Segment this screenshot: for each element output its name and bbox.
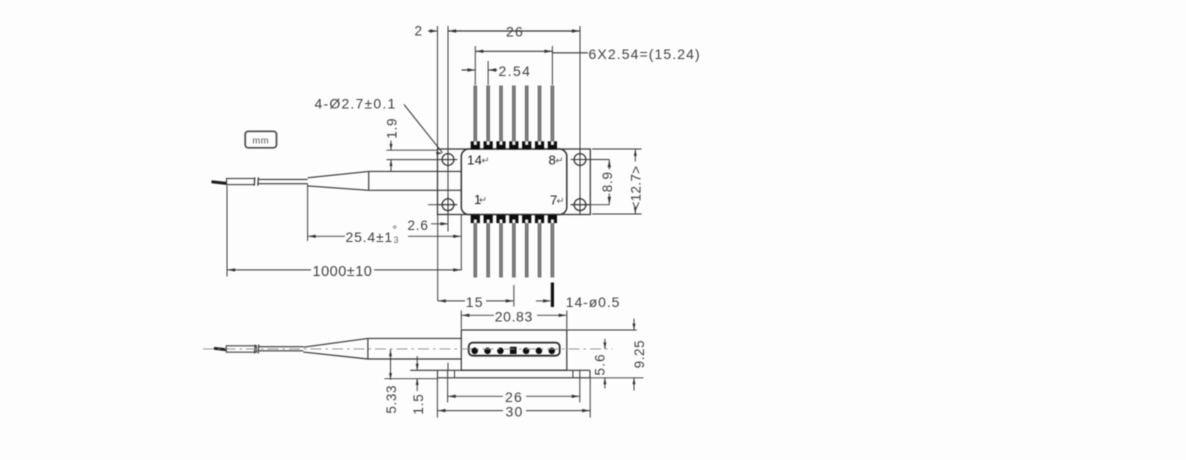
mounting hole bottom-left bbox=[439, 196, 457, 214]
pin 11 lead (top row, top view) bbox=[509, 86, 518, 150]
pin 8 lead (top row, top view) bbox=[548, 86, 557, 150]
svg-text:3: 3 bbox=[394, 235, 399, 245]
svg-text:14: 14 bbox=[467, 153, 482, 168]
dimension 2.54 (pin pitch) bbox=[462, 63, 532, 79]
feedthrough slot (side view) bbox=[469, 343, 560, 356]
mounting slot notch right (side view) bbox=[573, 370, 580, 378]
dimension 5.6 bbox=[592, 339, 607, 389]
dimension 1.5 bbox=[411, 356, 426, 415]
svg-text:↵: ↵ bbox=[482, 156, 490, 167]
dimension 8.9 (hole vertical spacing) bbox=[600, 160, 615, 205]
svg-text:1.5: 1.5 bbox=[411, 393, 426, 414]
svg-text:2.54: 2.54 bbox=[499, 63, 532, 79]
butterfly package body (top view) bbox=[461, 149, 567, 215]
fiber ferrule (side view) bbox=[226, 346, 256, 352]
extension line pin 14 bbox=[474, 46, 476, 85]
svg-text:5.33: 5.33 bbox=[384, 385, 399, 414]
pin 7 bold lead segment for 14-Ø0.5 callout bbox=[551, 283, 554, 308]
pin 5 end dot (side view) bbox=[523, 348, 530, 355]
pin 9 lead (top row, top view) bbox=[535, 86, 544, 150]
svg-text:25.4±1: 25.4±1 bbox=[346, 229, 394, 245]
dimension 26 (bottom) bbox=[448, 389, 580, 405]
pin 5 lead (bottom row, top view) bbox=[522, 215, 531, 278]
mounting hole top-left bbox=[439, 150, 457, 168]
extension line flange left edge bbox=[437, 26, 439, 149]
pin 3 lead (bottom row, top view) bbox=[496, 215, 505, 278]
svg-text:6X2.54=(15.24): 6X2.54=(15.24) bbox=[589, 46, 701, 62]
pin 1 lead (bottom row, top view) bbox=[471, 215, 480, 278]
dimension 1000±10 extension line bbox=[226, 186, 228, 277]
plate step tick (side view) bbox=[447, 363, 449, 371]
leader 4-Ø2.7±0.1 (mounting holes) bbox=[315, 96, 443, 155]
pin 2 end dot (side view) bbox=[484, 348, 491, 355]
package body (side view) bbox=[461, 330, 567, 370]
mounting hole top-right bbox=[571, 150, 589, 168]
fiber boot taper (top view) bbox=[308, 171, 369, 190]
pin 6 lead (bottom row, top view) bbox=[535, 215, 544, 278]
left hole lower cross stub bbox=[428, 204, 457, 206]
dimension 9.25 bbox=[632, 319, 647, 391]
dimension 20.83 bbox=[461, 308, 567, 324]
svg-text:<12.7>: <12.7> bbox=[629, 166, 644, 210]
svg-text:4-Ø2.7±0.1: 4-Ø2.7±0.1 bbox=[315, 96, 397, 112]
dimension 20.83 extension lines bbox=[461, 311, 567, 330]
dimension 15 extension elbow bbox=[437, 215, 439, 301]
pin 12 lead (top row, top view) bbox=[496, 86, 505, 150]
svg-text:14-ø0.5: 14-ø0.5 bbox=[566, 294, 621, 310]
dimension 2.6 bbox=[408, 218, 449, 233]
dimension 8.9 tails bbox=[571, 160, 610, 205]
fiber boot taper (side view) bbox=[303, 338, 368, 359]
svg-text:↵: ↵ bbox=[557, 196, 565, 207]
dimension 30 bbox=[437, 404, 590, 420]
svg-text:↵: ↵ bbox=[556, 156, 564, 167]
dimension 26 (hole spacing, top) bbox=[448, 24, 580, 40]
dimension 15 tick at pin 4 bbox=[513, 285, 515, 307]
ferrule break marks (side view) bbox=[255, 345, 259, 354]
dimension 1.9 stub lines bbox=[387, 150, 458, 159]
pin 4 lead (bottom row, top view) bbox=[509, 215, 518, 278]
callout 14-Ø0.5 (pin diameter) bbox=[536, 294, 620, 310]
pin label 7 bbox=[550, 193, 565, 208]
svg-text:↵: ↵ bbox=[479, 195, 487, 206]
extension line right hole center bbox=[579, 26, 581, 215]
dimension 1.9 bbox=[385, 118, 400, 172]
fiber ferrule (top view) bbox=[227, 179, 255, 185]
dimension 9.25 bottom reference line bbox=[590, 377, 644, 379]
svg-text:20.83: 20.83 bbox=[495, 308, 533, 324]
pin label 8 bbox=[549, 153, 564, 168]
baseplate flange (side view) bbox=[410, 370, 590, 378]
extension line package left edge below bbox=[460, 215, 462, 271]
bare fiber tip (side view) bbox=[214, 348, 226, 349]
svg-text:30: 30 bbox=[506, 404, 524, 420]
dimension 1000±10 bbox=[227, 264, 461, 280]
fiber tube (top view) bbox=[258, 179, 308, 183]
pin 3 end dot (side view) bbox=[497, 348, 504, 355]
extension line pin 8 bbox=[551, 46, 553, 85]
pin 14 lead (top row, top view) bbox=[471, 86, 480, 150]
svg-text:9.25: 9.25 bbox=[632, 340, 647, 369]
package mounting flange (top view) bbox=[438, 149, 591, 215]
pin 10 lead (top row, top view) bbox=[522, 86, 531, 150]
ferrule break marks (top view) bbox=[254, 177, 258, 185]
dimension 26 extension lines (bottom) bbox=[448, 378, 580, 402]
fiber boot snout (side view) bbox=[368, 338, 461, 359]
dimension 6X2.54=(15.24) bbox=[475, 46, 701, 62]
pin label 1 bbox=[474, 192, 487, 207]
centerline (side view) bbox=[203, 348, 613, 350]
dimension 30 extension lines bbox=[437, 378, 590, 417]
pin 7 end dot (side view) bbox=[549, 348, 556, 355]
units box mm bbox=[245, 131, 276, 148]
pin 2 lead (bottom row, top view) bbox=[484, 215, 493, 278]
bare fiber tip (top view) bbox=[212, 182, 227, 184]
svg-text:2: 2 bbox=[415, 24, 423, 39]
pin label 14 bbox=[467, 153, 490, 168]
pin 13 lead (top row, top view) bbox=[484, 86, 493, 150]
mounting slot notch left (side view) bbox=[448, 370, 455, 378]
dimension 5.33 bbox=[384, 349, 399, 413]
dimension 15 bbox=[438, 294, 514, 310]
fiber boot snout (top view) bbox=[369, 171, 462, 190]
dimension 25.4±1 bbox=[308, 225, 462, 246]
pin 1 end dot (side view) bbox=[471, 348, 478, 355]
extension line pin 13 bbox=[487, 61, 489, 85]
dimension (12.7) tails bbox=[592, 149, 642, 214]
dimension 9.25 top reference line bbox=[567, 329, 637, 331]
pin 6 end dot (side view) bbox=[536, 348, 543, 355]
dimension 25.4±1 extension line bbox=[307, 184, 309, 241]
extension line left hole center bbox=[447, 26, 449, 232]
svg-text:5.6: 5.6 bbox=[592, 353, 607, 375]
pin 4 end dot (side view) bbox=[510, 347, 517, 354]
svg-text:8.9: 8.9 bbox=[600, 171, 615, 192]
svg-text:mm: mm bbox=[252, 136, 269, 147]
svg-text:15: 15 bbox=[466, 294, 484, 310]
fiber tube (side view) bbox=[259, 347, 304, 351]
mounting hole bottom-right bbox=[571, 196, 589, 214]
svg-text:1.9: 1.9 bbox=[385, 118, 400, 139]
svg-text:2.6: 2.6 bbox=[408, 218, 429, 233]
svg-text:26: 26 bbox=[506, 24, 524, 40]
dimension (12.7) package height bbox=[629, 149, 644, 214]
baseplate reference line left bbox=[384, 378, 438, 380]
pin 7 lead (bottom row, top view) bbox=[548, 215, 557, 278]
svg-text:1000±10: 1000±10 bbox=[313, 264, 373, 280]
dimension 2 (flange edge to hole center) bbox=[415, 24, 438, 39]
